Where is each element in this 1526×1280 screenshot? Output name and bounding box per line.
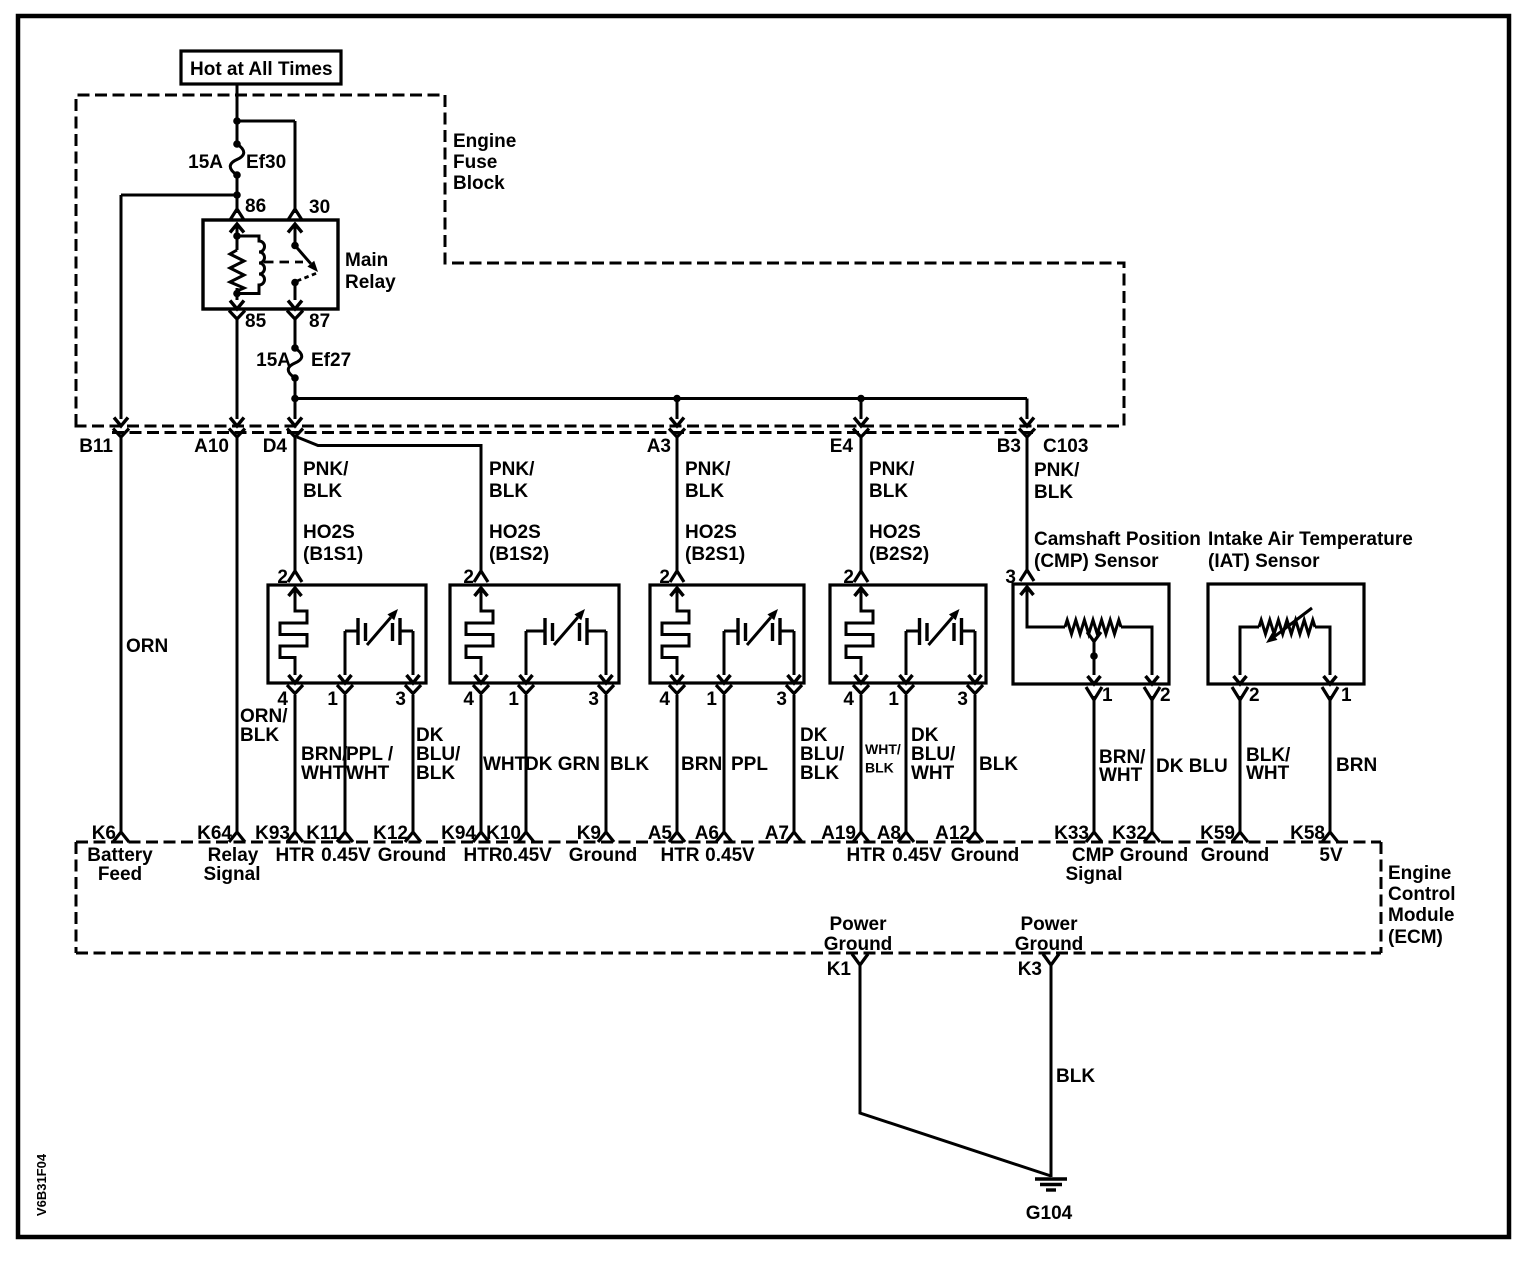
junction node (B11 branch) — [233, 191, 241, 199]
svg-text:K11: K11 — [306, 823, 340, 844]
svg-text:WHT: WHT — [346, 763, 390, 784]
sensor HO2S (B1S2) — [450, 585, 619, 683]
HO2S B1S2 pin 2 — [474, 571, 488, 582]
svg-text:0.45V: 0.45V — [321, 845, 371, 866]
svg-text:K32: K32 — [1112, 823, 1147, 844]
svg-text:WHT: WHT — [483, 754, 527, 775]
connector pin A3 — [670, 418, 684, 427]
svg-text:4: 4 — [463, 689, 474, 710]
wire DK BLU CMP pin2 to ECM K32 — [1151, 696, 1154, 833]
svg-text:BLK: BLK — [979, 754, 1018, 775]
svg-text:Camshaft Position: Camshaft Position — [1034, 529, 1201, 550]
svg-text:BLK: BLK — [1056, 1066, 1095, 1087]
relay pin 85 — [230, 301, 244, 310]
svg-text:ORN: ORN — [126, 636, 168, 657]
sensor HO2S (B2S2) — [830, 585, 986, 683]
relay switch arm — [294, 224, 297, 246]
ECM pin K9 — [598, 832, 614, 842]
svg-text:1: 1 — [1102, 685, 1113, 706]
wire DK BLU/BLK HO2S B2S1 pin3 to ECM A7 — [793, 695, 796, 833]
wire DK BLU/WHT HO2S B2S2 pin1 to ECM A8 — [905, 695, 908, 833]
svg-text:BLK: BLK — [800, 763, 839, 784]
svg-text:(B2S1): (B2S1) — [685, 544, 745, 565]
wire WHT HO2S B1S2 pin4 to ECM K94 — [480, 695, 483, 833]
svg-text:(ECM): (ECM) — [1388, 927, 1443, 948]
svg-text:DK: DK — [911, 725, 939, 746]
wire fuse Ef27 to D4 and bus — [294, 378, 297, 419]
svg-text:BLU/: BLU/ — [800, 744, 845, 765]
wire DK GRN HO2S B1S2 pin1 to ECM K10 — [525, 695, 528, 833]
svg-text:Ground: Ground — [569, 845, 638, 866]
junction node E4 — [857, 395, 865, 403]
wire branch to relay pin 30 — [237, 120, 295, 123]
svg-text:K12: K12 — [373, 823, 408, 844]
svg-text:Intake Air Temperature: Intake Air Temperature — [1208, 529, 1413, 550]
wire BLK HO2S B2S2 pin3 to ECM A12 — [974, 695, 977, 833]
HO2S B2S2 pin 4 — [853, 685, 869, 694]
junction node (hot feed / relay 30 branch) — [233, 117, 241, 125]
svg-text:Control: Control — [1388, 884, 1456, 905]
wire BRN IAT pin1 to ECM K58 — [1329, 696, 1332, 833]
svg-text:1: 1 — [1341, 685, 1352, 706]
wire E4 to HO2S B2S2 pin 2 — [860, 436, 863, 571]
svg-text:A3: A3 — [647, 436, 671, 457]
CMP pickup coil resistance — [1021, 587, 1034, 595]
svg-text:HO2S: HO2S — [685, 522, 737, 543]
svg-text:K10: K10 — [486, 823, 521, 844]
svg-text:Relay: Relay — [345, 272, 396, 293]
svg-text:87: 87 — [309, 311, 330, 332]
HO2S B1S2 heater element — [475, 588, 488, 596]
wire A3 to HO2S B2S1 pin 2 — [676, 436, 679, 571]
ECM pin K11 — [337, 832, 353, 842]
HO2S B2S1 pin 4 — [669, 685, 685, 694]
CMP pin 1 — [1086, 687, 1102, 700]
ECM pin K10 — [518, 832, 534, 842]
ECM pin A7 — [786, 832, 802, 842]
svg-text:A6: A6 — [695, 823, 719, 844]
svg-text:(B1S2): (B1S2) — [489, 544, 549, 565]
relay mechanical link (dashed) — [264, 261, 303, 264]
svg-text:BLK: BLK — [1034, 482, 1073, 503]
svg-text:30: 30 — [309, 197, 330, 218]
svg-text:15A: 15A — [188, 152, 223, 173]
HO2S B2S1 sensing cell — [724, 630, 738, 633]
CMP pin 2 — [1144, 687, 1160, 700]
svg-text:2: 2 — [463, 567, 474, 588]
wire BLK HO2S B1S2 pin3 to ECM K9 — [605, 695, 608, 833]
connector pin B11 — [114, 418, 128, 427]
IAT pin 2 — [1232, 687, 1248, 700]
wire ORN/BLK A10 to ECM K64 — [236, 436, 239, 833]
svg-text:WHT: WHT — [911, 763, 955, 784]
HO2S B1S1 pin 4 — [287, 685, 303, 694]
svg-text:(B2S2): (B2S2) — [869, 544, 929, 565]
fuse Ef30 15A — [233, 140, 241, 148]
svg-text:PNK/: PNK/ — [869, 459, 915, 480]
svg-text:1: 1 — [888, 689, 899, 710]
svg-text:HO2S: HO2S — [303, 522, 355, 543]
svg-text:Ground: Ground — [1201, 845, 1270, 866]
svg-text:HTR: HTR — [463, 845, 502, 866]
wire branch to B11 — [121, 194, 237, 197]
svg-text:BLK: BLK — [610, 754, 649, 775]
wire BRN/WHT CMP pin1 to ECM K33 — [1093, 696, 1096, 833]
svg-text:BLK: BLK — [685, 481, 724, 502]
svg-text:A5: A5 — [648, 823, 673, 844]
wire bus drop B3 — [1026, 399, 1029, 420]
svg-text:Ground: Ground — [1015, 934, 1084, 955]
svg-text:Power: Power — [1020, 914, 1078, 935]
svg-text:E4: E4 — [830, 436, 854, 457]
HO2S B1S2 pin 1 — [518, 685, 534, 694]
CMP signal tap — [1087, 632, 1101, 642]
svg-text:Relay: Relay — [208, 845, 259, 866]
connector pin A10 — [230, 418, 244, 427]
ECM pin A19 — [853, 832, 869, 842]
svg-text:86: 86 — [245, 196, 266, 217]
svg-text:(IAT) Sensor: (IAT) Sensor — [1208, 551, 1320, 572]
svg-text:BLK: BLK — [240, 725, 279, 746]
svg-text:HTR: HTR — [275, 845, 314, 866]
HO2S B2S2 pin 3 — [967, 685, 983, 694]
HO2S B2S2 pin 1 — [898, 685, 914, 694]
svg-text:0.45V: 0.45V — [705, 845, 755, 866]
svg-text:PNK/: PNK/ — [303, 459, 349, 480]
HO2S B1S2 sensing cell — [526, 630, 545, 633]
svg-text:Ground: Ground — [824, 934, 893, 955]
svg-text:2: 2 — [659, 567, 670, 588]
svg-text:BLK: BLK — [869, 481, 908, 502]
svg-text:WHT: WHT — [301, 763, 345, 784]
ECM pin K94 — [473, 832, 489, 842]
ECM pin A5 — [669, 832, 685, 842]
wire PPL HO2S B2S1 pin1 to ECM A6 — [723, 695, 726, 833]
svg-text:Ground: Ground — [1120, 845, 1189, 866]
wire BLK/WHT IAT pin2 to ECM K59 — [1239, 696, 1242, 833]
svg-text:BLK: BLK — [416, 763, 455, 784]
wire K1 to ground G104 — [860, 965, 1051, 1176]
wire branch D4 to HO2S B1S2 pin 2 — [297, 437, 481, 571]
wire PNK/BLK bus to B3 — [295, 397, 1027, 400]
svg-text:0.45V: 0.45V — [892, 845, 942, 866]
svg-text:WHT: WHT — [1246, 763, 1290, 784]
HO2S B1S2 pin 4 — [473, 685, 489, 694]
wire relay pin 87 to fuse Ef27 — [294, 319, 297, 348]
wire bus drop A3 — [676, 399, 679, 420]
svg-text:1: 1 — [706, 689, 717, 710]
svg-text:PNK/: PNK/ — [1034, 460, 1080, 481]
relay coil — [236, 224, 239, 250]
svg-text:K6: K6 — [92, 823, 116, 844]
HO2S B2S1 pin 3 — [786, 685, 802, 694]
ECM pin A12 — [967, 832, 983, 842]
svg-text:K59: K59 — [1200, 823, 1235, 844]
node Hot at All Times — [181, 51, 341, 84]
sensor HO2S (B1S1) — [268, 585, 426, 683]
HO2S B1S1 heater element — [289, 588, 302, 596]
svg-text:Fuse: Fuse — [453, 152, 497, 173]
wire bus drop E4 — [860, 399, 863, 420]
svg-text:Engine: Engine — [1388, 863, 1451, 884]
svg-text:Block: Block — [453, 173, 505, 194]
svg-text:0.45V: 0.45V — [502, 845, 552, 866]
svg-text:BLK: BLK — [865, 760, 894, 776]
relay Main Relay — [203, 220, 338, 309]
junction node A3 — [673, 395, 681, 403]
svg-text:4: 4 — [843, 689, 854, 710]
svg-text:Ef30: Ef30 — [246, 152, 286, 173]
svg-text:Ground: Ground — [378, 845, 447, 866]
svg-text:3: 3 — [776, 689, 787, 710]
svg-text:A10: A10 — [194, 436, 229, 457]
svg-text:V6B31F04: V6B31F04 — [34, 1153, 49, 1216]
svg-text:G104: G104 — [1026, 1203, 1073, 1224]
svg-text:Signal: Signal — [203, 864, 260, 885]
svg-text:1: 1 — [508, 689, 519, 710]
svg-text:PNK/: PNK/ — [489, 459, 535, 480]
svg-text:3: 3 — [1005, 567, 1016, 588]
svg-text:85: 85 — [245, 311, 267, 332]
ground G104 — [1035, 1177, 1067, 1180]
engine fuse block boundary — [76, 95, 1124, 426]
IAT pin 1 — [1322, 687, 1338, 700]
svg-text:A8: A8 — [877, 823, 901, 844]
wire DK BLU/BLK HO2S B1S1 pin3 to ECM K12 — [412, 695, 415, 833]
ECM pin K59 — [1232, 832, 1248, 842]
svg-text:Battery: Battery — [87, 845, 153, 866]
wire WHT/BLK HO2S B2S2 pin4 to ECM A19 — [860, 695, 863, 833]
relay pin 86 — [230, 209, 244, 220]
HO2S B2S2 sensing cell — [906, 630, 920, 633]
connector pin B3 — [1020, 418, 1034, 427]
svg-text:2: 2 — [1249, 685, 1260, 706]
svg-text:K93: K93 — [255, 823, 290, 844]
connector C103 line — [112, 431, 1033, 434]
svg-text:Module: Module — [1388, 905, 1455, 926]
svg-text:3: 3 — [588, 689, 599, 710]
svg-text:B3: B3 — [997, 436, 1021, 457]
connector pin E4 — [854, 418, 868, 427]
wire B3 to CMP sensor pin 3 — [1026, 436, 1029, 570]
ECM pin K93 — [287, 832, 303, 842]
svg-text:BLK: BLK — [303, 481, 342, 502]
HO2S B2S1 pin 2 — [670, 571, 684, 582]
svg-text:3: 3 — [957, 689, 968, 710]
fuse Ef27 15A — [291, 344, 299, 352]
HO2S B1S1 sensing cell — [345, 630, 358, 633]
svg-text:K64: K64 — [197, 823, 232, 844]
svg-text:Signal: Signal — [1065, 864, 1122, 885]
svg-text:A19: A19 — [821, 823, 856, 844]
svg-text:Main: Main — [345, 250, 388, 271]
module Engine Control Module (ECM) boundary — [76, 841, 1381, 844]
svg-text:K1: K1 — [827, 959, 852, 980]
HO2S B2S2 heater element — [855, 588, 868, 596]
svg-text:2: 2 — [1160, 685, 1171, 706]
HO2S B1S1 pin 1 — [337, 685, 353, 694]
wire relay pin 85 to A10 — [236, 319, 239, 419]
wire BLK K3 to ground G104 — [1050, 965, 1053, 1177]
svg-text:5V: 5V — [1319, 845, 1343, 866]
IAT thermistor — [1240, 627, 1259, 675]
svg-text:A12: A12 — [935, 823, 970, 844]
wire PNK/BLK D4 to HO2S B1S1 pin 2 — [294, 436, 297, 571]
svg-text:PPL: PPL — [731, 754, 768, 775]
wire hot feed — [236, 84, 239, 144]
svg-text:PNK/: PNK/ — [685, 459, 731, 480]
svg-text:K9: K9 — [577, 823, 601, 844]
ECM pin A6 — [716, 832, 732, 842]
HO2S B2S1 pin 1 — [716, 685, 732, 694]
svg-text:4: 4 — [277, 689, 288, 710]
ECM pin K64 — [229, 832, 245, 842]
svg-text:K33: K33 — [1054, 823, 1089, 844]
HO2S B1S2 pin 3 — [598, 685, 614, 694]
connector pin D4 — [288, 418, 302, 427]
wire PPL/WHT HO2S B1S1 pin1 to ECM K11 — [344, 695, 347, 833]
HO2S B1S1 pin 2 — [288, 571, 302, 582]
sensor HO2S (B2S1) — [650, 585, 804, 683]
svg-text:(CMP) Sensor: (CMP) Sensor — [1034, 551, 1159, 572]
svg-text:HO2S: HO2S — [869, 522, 921, 543]
svg-text:DK: DK — [416, 725, 444, 746]
svg-text:2: 2 — [843, 567, 854, 588]
svg-text:WHT/: WHT/ — [865, 741, 901, 757]
HO2S B2S1 heater element — [671, 588, 684, 596]
svg-text:K58: K58 — [1290, 823, 1325, 844]
svg-text:1: 1 — [327, 689, 338, 710]
wire fuse Ef30 to relay pin 86 — [236, 175, 239, 213]
relay pin 30 — [288, 209, 302, 220]
svg-text:HO2S: HO2S — [489, 522, 541, 543]
svg-text:Ef27: Ef27 — [311, 350, 351, 371]
ECM pin K12 — [405, 832, 421, 842]
svg-text:BLK: BLK — [489, 481, 528, 502]
svg-text:DK GRN: DK GRN — [525, 754, 600, 775]
svg-text:Ground: Ground — [951, 845, 1020, 866]
svg-text:Engine: Engine — [453, 131, 516, 152]
ECM pin K32 — [1144, 832, 1160, 842]
ECM pin K6 — [113, 832, 129, 842]
svg-text:BRN/: BRN/ — [301, 744, 348, 765]
svg-text:2: 2 — [277, 567, 288, 588]
svg-text:DK BLU: DK BLU — [1156, 756, 1228, 777]
ECM pin A8 — [898, 832, 914, 842]
svg-text:BLU/: BLU/ — [416, 744, 461, 765]
HO2S B2S2 pin 2 — [854, 571, 868, 582]
svg-text:A7: A7 — [765, 823, 789, 844]
svg-text:C103: C103 — [1043, 436, 1088, 457]
svg-text:HTR: HTR — [660, 845, 699, 866]
svg-text:WHT: WHT — [1099, 765, 1143, 786]
svg-text:BLU/: BLU/ — [911, 744, 956, 765]
ECM pin K33 — [1086, 832, 1102, 842]
svg-text:CMP: CMP — [1072, 845, 1115, 866]
svg-text:BRN: BRN — [1336, 755, 1377, 776]
junction node bus tap — [291, 395, 299, 403]
svg-text:BRN: BRN — [681, 754, 722, 775]
svg-text:D4: D4 — [263, 436, 288, 457]
HO2S B1S1 pin 3 — [405, 685, 421, 694]
svg-text:DK: DK — [800, 725, 828, 746]
CMP pin 3 — [1020, 570, 1034, 581]
svg-text:B11: B11 — [79, 436, 113, 457]
svg-text:Hot at All Times: Hot at All Times — [190, 59, 333, 80]
svg-text:Power: Power — [829, 914, 887, 935]
svg-text:PPL /: PPL / — [346, 744, 394, 765]
svg-text:HTR: HTR — [846, 845, 885, 866]
svg-text:3: 3 — [395, 689, 406, 710]
wire ORN B11 to ECM K6 — [120, 436, 123, 833]
svg-text:15A: 15A — [256, 350, 291, 371]
svg-text:K94: K94 — [441, 823, 476, 844]
svg-text:K3: K3 — [1018, 959, 1042, 980]
ECM pin K58 — [1322, 832, 1338, 842]
svg-text:Feed: Feed — [98, 864, 142, 885]
svg-text:4: 4 — [659, 689, 670, 710]
wire BRN HO2S B2S1 pin4 to ECM A5 — [676, 695, 679, 833]
relay pin 87 — [288, 301, 302, 310]
wire BRN/WHT HO2S B1S1 pin4 to ECM K93 — [294, 695, 297, 833]
svg-text:(B1S1): (B1S1) — [303, 544, 363, 565]
